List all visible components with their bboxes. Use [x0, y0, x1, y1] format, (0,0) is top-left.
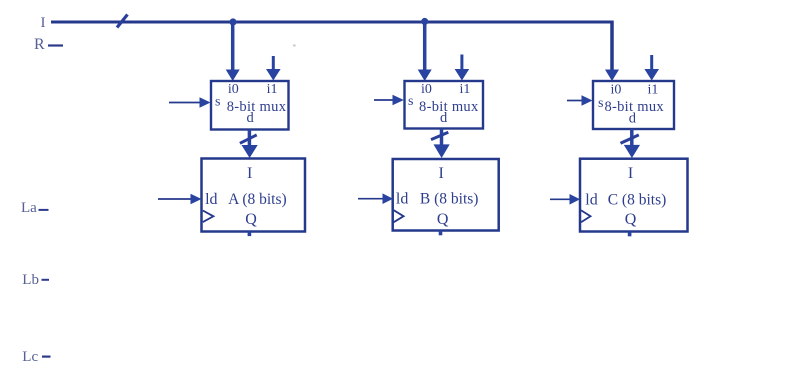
svg-text:d: d	[629, 111, 637, 127]
svg-text:C (8 bits): C (8 bits)	[608, 192, 667, 209]
svg-text:8-bit mux: 8-bit mux	[227, 99, 287, 115]
svg-text:Lb: Lb	[22, 272, 39, 288]
svg-text:s: s	[408, 94, 413, 109]
svg-text:s: s	[215, 95, 220, 110]
svg-text:I: I	[41, 15, 46, 31]
svg-text:i0: i0	[228, 82, 239, 97]
svg-text:d: d	[246, 110, 254, 126]
svg-text:i1: i1	[648, 83, 659, 98]
svg-text:Lc: Lc	[22, 349, 38, 365]
svg-text:R: R	[34, 36, 45, 53]
svg-text:ld: ld	[205, 191, 217, 208]
svg-text:i0: i0	[611, 83, 622, 98]
svg-text:Q: Q	[437, 211, 449, 228]
svg-text:I: I	[439, 165, 444, 182]
svg-text:B (8 bits): B (8 bits)	[420, 191, 479, 208]
svg-text:Q: Q	[245, 211, 257, 228]
svg-text:8-bit mux: 8-bit mux	[419, 99, 479, 115]
svg-text:i1: i1	[459, 82, 470, 97]
svg-text:ld: ld	[396, 191, 408, 208]
svg-text:i1: i1	[267, 82, 278, 97]
svg-text:i0: i0	[421, 82, 432, 97]
svg-text:I: I	[628, 165, 633, 182]
svg-text:ld: ld	[585, 192, 597, 209]
svg-text:La: La	[21, 200, 37, 216]
svg-text:I: I	[247, 165, 252, 182]
svg-text:Q: Q	[625, 211, 637, 228]
svg-text:A (8 bits): A (8 bits)	[228, 191, 287, 208]
svg-text:d: d	[440, 110, 448, 126]
svg-text:s: s	[598, 96, 603, 111]
